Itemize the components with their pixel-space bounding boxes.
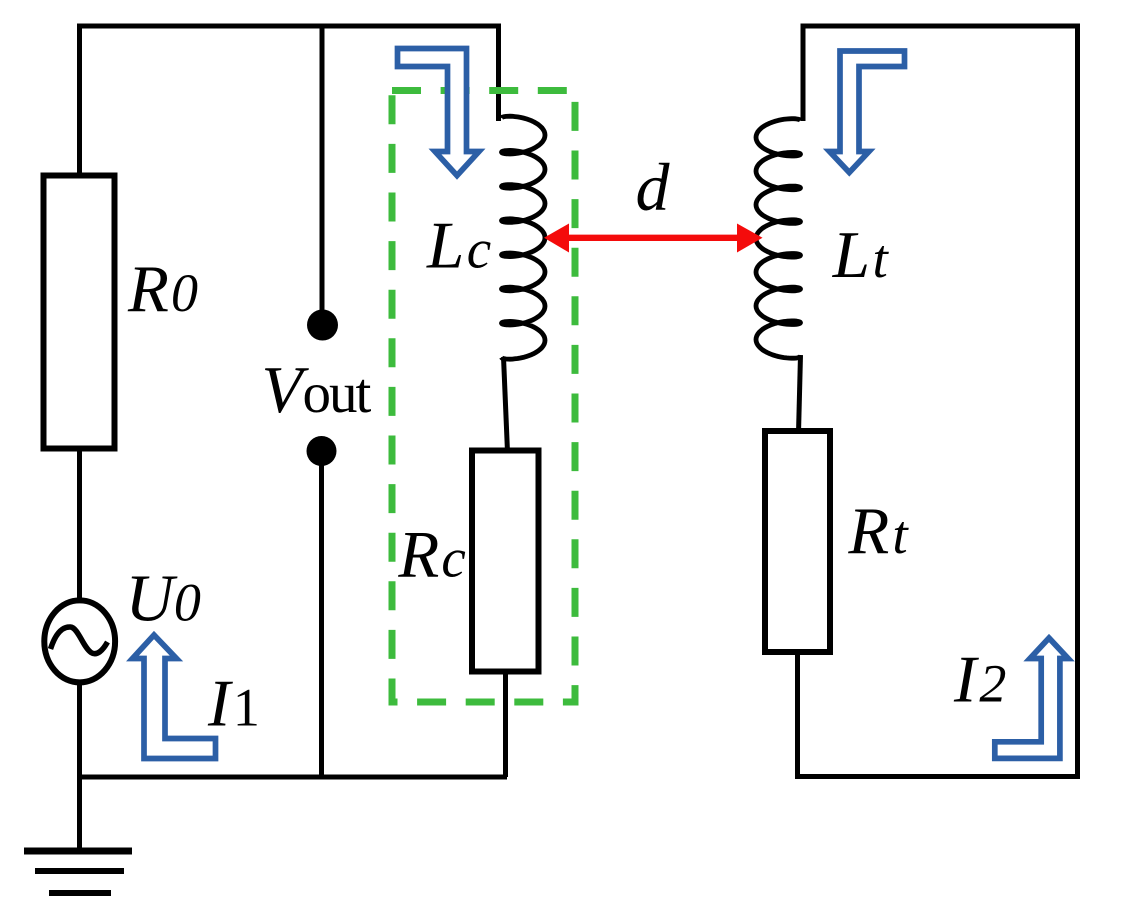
svg-text:R0: R0 [127, 252, 200, 326]
svg-text:d: d [636, 149, 671, 225]
svg-text:I2: I2 [953, 643, 1009, 717]
svg-text:Lc: Lc [426, 209, 494, 283]
svg-text:Lt: Lt [832, 218, 891, 292]
svg-text:U0: U0 [126, 562, 201, 636]
svg-text:Rc: Rc [397, 518, 467, 592]
svg-text:Vout: Vout [262, 353, 372, 427]
svg-text:Rt: Rt [847, 494, 910, 568]
svg-text:I1: I1 [207, 667, 262, 741]
